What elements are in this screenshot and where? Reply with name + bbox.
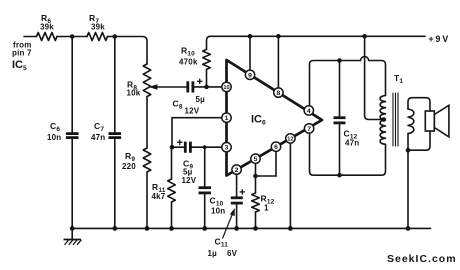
wire pin 1 to C9 junction [172,118,223,147]
wire pin 12 to rail [289,141,291,228]
wire R6 to R7 [57,36,87,38]
node rail T1 feed [362,34,367,39]
resistor R10 [203,49,211,69]
capacitor plates [66,81,346,203]
wire R11 to rail [171,202,173,228]
wire pin 6 down [275,149,277,176]
capacitor C11 plates [231,196,243,199]
wire B pin7 to transformer primary bottom [310,144,386,175]
svg-text:1: 1 [225,115,229,122]
svg-text:47n: 47n [91,133,105,142]
svg-text:4: 4 [307,108,311,115]
svg-text:5µ: 5µ [196,95,206,104]
capacitor C12 plates [334,116,346,119]
rail nodes [70,226,75,231]
svg-text:pin 7: pin 7 [12,49,32,58]
svg-text:SeekIC.com: SeekIC.com [387,253,457,265]
resistor R7 [87,33,108,41]
wire secondary bottom junction [407,134,409,151]
svg-text:3: 3 [225,145,229,152]
svg-text:39k: 39k [91,23,105,32]
wire input from IC5 [24,36,37,38]
svg-text:10n: 10n [47,133,61,142]
node rail pin 8 [276,34,281,39]
wire R12 top lead [255,176,257,193]
wire R9 to rail [146,172,148,228]
capacitor C10 top lead [204,147,206,187]
svg-text:470k: 470k [179,58,198,67]
node secondary/speaker [406,148,411,153]
transformer T1 secondary coil [408,109,414,134]
transformer T1 primary coil [380,96,385,145]
node C12 bottom [337,173,342,178]
wire R8 to R9 [146,97,148,149]
ground rail [72,227,430,229]
node R12 top [253,174,258,179]
node rail pin 9 [248,34,253,39]
wire pin 9 to rail [249,36,251,75]
pin 5 [251,154,260,163]
node C10 tap [203,145,207,149]
svg-text:12V: 12V [182,176,197,185]
node R7/C7 [113,34,118,39]
pin 6 [271,142,280,151]
C11 pointer arrow [223,208,235,238]
transformer T1 core [393,93,398,146]
wire speaker bottom to junction [408,131,430,150]
wire C8 to pin 10 [194,86,224,88]
pin 3 [222,143,231,152]
wire +9V to transformer centre tap [365,36,384,119]
resistor R8 potentiometer [143,64,151,97]
wire pin 7 down to wire B [309,132,311,172]
resistor R12 [252,193,260,212]
resistor R11 [168,179,176,202]
svg-text:12V: 12V [185,107,200,116]
svg-text:4k7: 4k7 [152,192,166,201]
speaker [425,105,449,137]
wire A pin4 to transformer primary top with hop [310,57,386,96]
svg-text:12: 12 [287,137,293,143]
svg-text:10n: 10n [211,207,225,216]
wire C9 to pin 3 [192,146,224,148]
resistor R10 top lead from +9V rail [207,36,211,49]
svg-text:6: 6 [274,144,278,151]
wiper wire R8 to C8 [155,86,187,88]
svg-text:10k: 10k [127,89,141,98]
R8 wiper arrowhead [149,84,158,90]
wire R11 top [171,147,173,179]
pin 10 [222,82,231,91]
ground [64,240,82,245]
svg-text:39k: 39k [40,23,54,32]
capacitor C6 leads [71,37,73,134]
wire R10 bottom [206,69,208,87]
svg-text:220: 220 [122,162,136,171]
capacitor C10 plates [199,186,212,189]
svg-text:7: 7 [307,126,311,133]
svg-text:47n: 47n [345,139,359,148]
wire C9 junction to C9 [172,146,185,148]
pin 4 [304,106,313,115]
wire pin 4 up to output wire A [309,64,311,107]
capacitor C10 bottom lead [204,194,206,229]
ground stem [71,228,73,239]
node T1 centre tap [382,117,387,122]
wire secondary top to speaker [408,98,430,111]
svg-text:5: 5 [254,156,258,163]
pin 1 [222,113,231,122]
wire R7 to R8 top [108,37,148,65]
svg-text:6V: 6V [227,249,238,258]
pin numbers [223,72,311,174]
pin circles [222,70,314,174]
pin 7 [304,124,313,133]
resistor R6 [37,33,58,41]
wire pin5-pin6 R12 top [256,175,277,177]
svg-text:+9V: +9V [429,34,451,44]
capacitor C7 plates [109,132,122,135]
pin 12 [286,134,295,143]
node R6/R7/C6 [70,34,75,39]
plus C9 [177,141,182,143]
capacitor C12 leads [339,61,341,118]
svg-text:8: 8 [277,90,281,97]
node R10/C8/pin10 [204,85,209,90]
svg-text:1µ: 1µ [208,249,218,258]
op-amp IC6 triangle [227,60,323,176]
resistor R9 [143,148,151,172]
plus C8 [197,80,202,82]
wire pin 5 down [255,161,257,176]
pin 8 [274,88,283,97]
+9V rail [211,35,426,37]
node C12 top [337,58,342,63]
pin 2 [232,165,241,174]
node C9/R11/pin1 [170,145,175,150]
svg-text:10: 10 [223,85,229,91]
plus C11 [240,191,245,193]
wire R12 to rail [255,212,257,228]
capacitor C9 plates [184,142,187,153]
wire C11 to rail [236,204,238,229]
capacitor C6 plates [66,132,79,135]
pin 9 [245,70,254,79]
svg-text:1: 1 [264,204,269,213]
plus signs [177,79,245,195]
svg-text:9: 9 [248,72,252,79]
wire pin 2 to C11 [236,172,238,197]
wire junction to rail [407,150,409,228]
svg-text:2: 2 [235,167,239,174]
capacitor C7 leads [114,37,116,134]
capacitor C8 plates [186,81,189,92]
wire pin 8 to rail [277,36,279,92]
